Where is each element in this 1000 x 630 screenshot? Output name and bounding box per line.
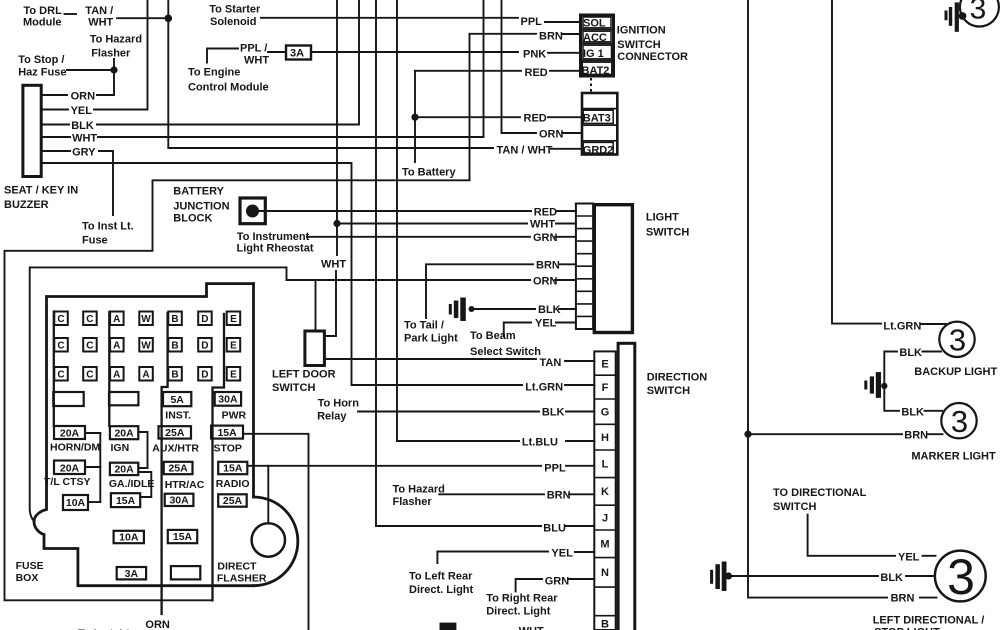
svg-text:GRY: GRY	[72, 147, 96, 159]
svg-text:Solenoid: Solenoid	[210, 16, 256, 28]
svg-text:BRN: BRN	[547, 490, 571, 502]
svg-text:RED: RED	[525, 67, 548, 79]
svg-text:YEL: YEL	[551, 548, 573, 560]
svg-text:BRN: BRN	[536, 260, 560, 272]
svg-text:To Tail /: To Tail /	[404, 320, 444, 332]
svg-text:Lt.GRN: Lt.GRN	[525, 382, 563, 394]
svg-text:15A: 15A	[223, 463, 243, 475]
svg-text:BLK: BLK	[71, 120, 94, 132]
svg-text:Fuse: Fuse	[82, 235, 108, 247]
svg-text:WHT: WHT	[530, 219, 555, 231]
svg-text:Select Switch: Select Switch	[470, 346, 541, 358]
svg-text:SWITCH: SWITCH	[272, 382, 315, 394]
svg-text:CONNECTOR: CONNECTOR	[617, 51, 688, 63]
svg-text:To Inst Lt.: To Inst Lt.	[82, 221, 134, 233]
svg-text:To Horn: To Horn	[318, 398, 360, 410]
svg-text:Park Light: Park Light	[404, 333, 458, 345]
svg-text:SWITCH: SWITCH	[773, 501, 816, 513]
svg-text:BAT2: BAT2	[582, 65, 610, 77]
svg-text:FUSE: FUSE	[16, 560, 44, 572]
svg-text:W: W	[141, 314, 151, 325]
svg-text:E: E	[230, 341, 237, 352]
svg-text:15A: 15A	[217, 427, 237, 439]
svg-text:T/L CTSY: T/L CTSY	[44, 476, 90, 488]
svg-text:20A: 20A	[114, 464, 134, 476]
svg-text:D: D	[201, 314, 208, 325]
svg-text:E: E	[230, 314, 237, 325]
svg-text:20A: 20A	[114, 428, 134, 440]
svg-text:LIGHT: LIGHT	[646, 212, 679, 224]
svg-text:JUNCTION: JUNCTION	[173, 201, 229, 213]
svg-text:PPL: PPL	[521, 16, 543, 28]
svg-text:3A: 3A	[290, 48, 304, 60]
svg-text:BLK: BLK	[542, 407, 565, 419]
svg-text:BLK: BLK	[880, 572, 903, 584]
svg-text:C: C	[57, 370, 64, 381]
svg-text:BLK: BLK	[899, 347, 922, 359]
svg-text:HTR/AC: HTR/AC	[165, 479, 205, 491]
svg-text:TAN /: TAN /	[85, 5, 113, 17]
svg-text:Direct. Light: Direct. Light	[409, 584, 474, 596]
svg-text:25A: 25A	[223, 495, 243, 507]
svg-text:RADIO: RADIO	[216, 478, 250, 490]
svg-text:To DRL: To DRL	[24, 5, 63, 17]
svg-text:WHT: WHT	[519, 626, 544, 630]
svg-text:MARKER LIGHT: MARKER LIGHT	[911, 451, 996, 463]
svg-text:A: A	[113, 314, 120, 325]
svg-text:K: K	[601, 486, 609, 498]
svg-text:To Hazard: To Hazard	[90, 34, 142, 46]
svg-text:ACC: ACC	[583, 32, 607, 44]
svg-text:BLK: BLK	[901, 407, 924, 419]
svg-text:To Instrument: To Instrument	[237, 231, 310, 243]
svg-text:BLOCK: BLOCK	[173, 213, 212, 225]
svg-text:C: C	[86, 314, 93, 325]
svg-text:PPL: PPL	[544, 463, 566, 475]
svg-text:LEFT DIRECTIONAL /: LEFT DIRECTIONAL /	[873, 615, 985, 627]
svg-text:To Starter: To Starter	[209, 4, 261, 16]
svg-text:BRN: BRN	[891, 593, 915, 605]
svg-text:SOL: SOL	[583, 18, 606, 30]
svg-text:5A: 5A	[170, 394, 184, 406]
svg-text:N: N	[601, 567, 609, 579]
svg-text:To Beam: To Beam	[470, 330, 516, 342]
svg-text:DIRECTION: DIRECTION	[647, 372, 708, 384]
svg-text:IGNITION: IGNITION	[617, 25, 666, 37]
svg-text:D: D	[201, 341, 208, 352]
svg-text:WHT: WHT	[244, 55, 269, 67]
svg-text:Flasher: Flasher	[91, 48, 131, 60]
svg-text:L: L	[602, 459, 609, 471]
svg-text:D: D	[201, 370, 208, 381]
svg-text:DIRECT: DIRECT	[217, 561, 257, 573]
svg-text:B: B	[171, 341, 178, 352]
svg-text:SWITCH: SWITCH	[646, 227, 689, 239]
svg-text:YEL: YEL	[71, 105, 93, 117]
svg-text:RED: RED	[534, 207, 557, 219]
svg-text:GRN: GRN	[545, 576, 570, 588]
svg-text:AUX/HTR: AUX/HTR	[152, 443, 199, 455]
svg-text:IG 1: IG 1	[583, 48, 604, 60]
svg-text:B: B	[171, 314, 178, 325]
svg-text:RED: RED	[524, 113, 547, 125]
svg-text:BLK: BLK	[538, 304, 561, 316]
svg-text:To Left Rear: To Left Rear	[409, 571, 473, 583]
svg-text:To Hazard: To Hazard	[393, 484, 445, 496]
svg-text:C: C	[86, 370, 93, 381]
svg-text:GRN: GRN	[533, 232, 558, 244]
svg-text:Lt.BLU: Lt.BLU	[522, 437, 558, 449]
svg-text:Module: Module	[23, 17, 62, 29]
svg-text:E: E	[230, 370, 237, 381]
svg-text:To Engine: To Engine	[188, 67, 240, 79]
svg-text:GRD2: GRD2	[583, 145, 614, 157]
svg-text:30A: 30A	[218, 394, 238, 406]
svg-text:3: 3	[970, 0, 987, 26]
svg-text:B: B	[601, 619, 609, 630]
svg-text:BACKUP LIGHT: BACKUP LIGHT	[914, 366, 997, 378]
svg-text:Lt.GRN: Lt.GRN	[883, 321, 921, 333]
svg-text:WHT: WHT	[321, 259, 346, 271]
svg-text:30A: 30A	[169, 495, 189, 507]
svg-text:20A: 20A	[60, 463, 80, 475]
svg-text:M: M	[600, 539, 609, 551]
svg-text:A: A	[142, 370, 149, 381]
svg-text:IGN: IGN	[111, 442, 130, 454]
svg-text:GA./IDLE: GA./IDLE	[109, 478, 155, 490]
svg-text:Haz Fuse: Haz Fuse	[18, 67, 66, 79]
svg-text:PNK: PNK	[523, 49, 546, 61]
svg-text:SEAT / KEY IN: SEAT / KEY IN	[4, 185, 78, 197]
svg-text:25A: 25A	[165, 427, 185, 439]
svg-text:E: E	[601, 359, 608, 371]
svg-text:25A: 25A	[168, 463, 188, 475]
svg-text:WHT: WHT	[72, 133, 97, 145]
svg-text:C: C	[57, 341, 64, 352]
svg-text:To Stop /: To Stop /	[18, 54, 64, 66]
svg-text:F: F	[602, 382, 609, 394]
svg-text:ORN: ORN	[533, 276, 558, 288]
svg-text:PPL /: PPL /	[240, 43, 267, 55]
svg-text:10A: 10A	[66, 497, 86, 509]
svg-text:TAN: TAN	[540, 357, 562, 369]
svg-text:TAN / WHT: TAN / WHT	[497, 145, 553, 157]
svg-text:H: H	[601, 432, 609, 444]
svg-text:G: G	[601, 407, 610, 419]
svg-text:LEFT DOOR: LEFT DOOR	[272, 369, 336, 381]
svg-text:To Battery: To Battery	[402, 167, 456, 179]
svg-text:3: 3	[951, 404, 968, 439]
svg-text:HORN/DM: HORN/DM	[50, 442, 100, 454]
svg-text:3: 3	[949, 323, 966, 358]
svg-text:B: B	[171, 370, 178, 381]
svg-text:J: J	[602, 513, 608, 525]
svg-text:Flasher: Flasher	[393, 496, 433, 508]
svg-text:BATTERY: BATTERY	[173, 186, 224, 198]
svg-text:FLASHER: FLASHER	[217, 573, 267, 585]
svg-text:15A: 15A	[116, 495, 136, 507]
svg-text:3: 3	[947, 549, 975, 605]
svg-text:W: W	[141, 341, 151, 352]
svg-text:ORN: ORN	[145, 619, 170, 630]
svg-text:To Right Rear: To Right Rear	[486, 593, 558, 605]
svg-text:3A: 3A	[125, 568, 139, 580]
svg-text:ORN: ORN	[71, 91, 96, 103]
svg-text:STOP LIGHT: STOP LIGHT	[874, 627, 940, 630]
svg-text:BUZZER: BUZZER	[4, 199, 49, 211]
svg-text:BOX: BOX	[16, 572, 39, 584]
svg-text:SWITCH: SWITCH	[617, 39, 660, 51]
svg-text:20A: 20A	[60, 428, 80, 440]
svg-text:Relay: Relay	[317, 411, 347, 423]
svg-text:STOP: STOP	[214, 443, 242, 455]
svg-text:YEL: YEL	[898, 552, 920, 564]
svg-text:YEL: YEL	[535, 318, 557, 330]
svg-text:C: C	[86, 341, 93, 352]
svg-text:SWITCH: SWITCH	[647, 385, 690, 397]
svg-text:ORN: ORN	[539, 129, 564, 141]
svg-text:BLU: BLU	[543, 523, 566, 535]
svg-text:BRN: BRN	[539, 31, 563, 43]
svg-text:INST.: INST.	[165, 410, 191, 422]
svg-text:PWR: PWR	[222, 410, 247, 422]
svg-text:A: A	[113, 341, 120, 352]
svg-text:A: A	[113, 370, 120, 381]
svg-text:Direct. Light: Direct. Light	[486, 606, 551, 618]
svg-text:WHT: WHT	[88, 17, 113, 29]
svg-text:C: C	[57, 314, 64, 325]
svg-text:Control Module: Control Module	[188, 82, 269, 94]
svg-text:Light Rheostat: Light Rheostat	[237, 243, 314, 255]
svg-text:TO DIRECTIONAL: TO DIRECTIONAL	[773, 487, 867, 499]
svg-text:BRN: BRN	[904, 430, 928, 442]
svg-text:BAT3: BAT3	[583, 113, 611, 125]
svg-text:15A: 15A	[173, 531, 193, 543]
svg-text:10A: 10A	[119, 532, 139, 544]
